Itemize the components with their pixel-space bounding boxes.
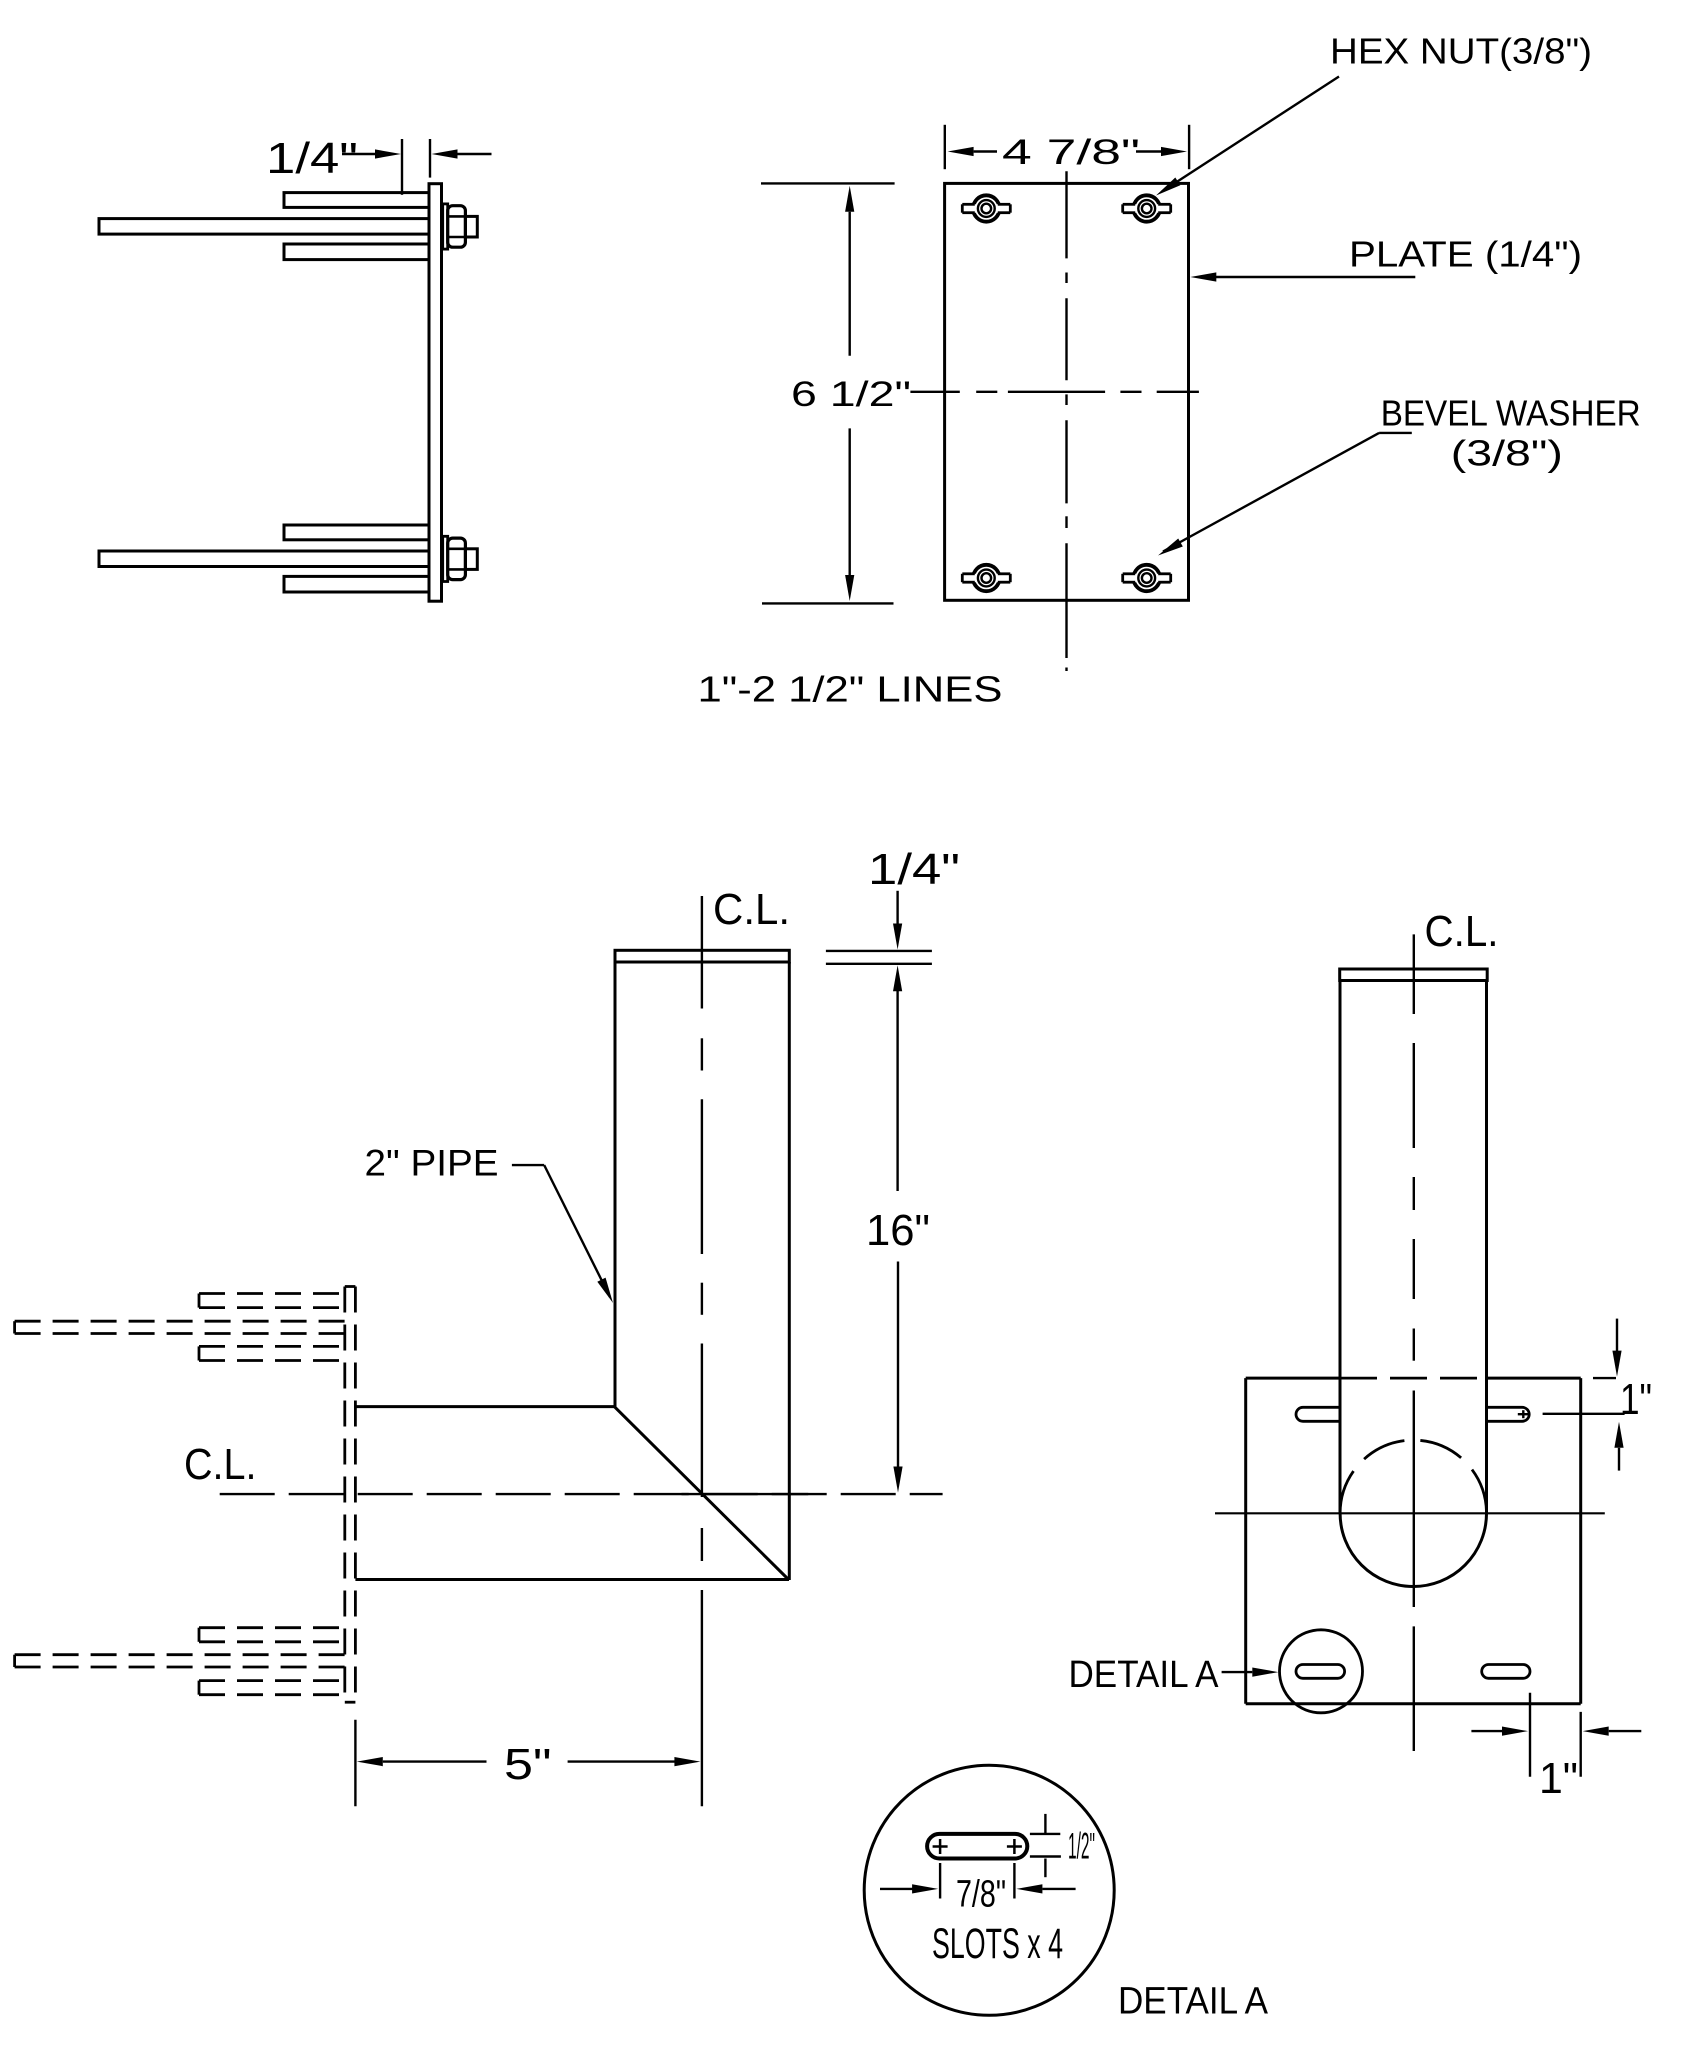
dim 1/4" arrow down [896, 891, 898, 925]
dim 1/4" extension line left [401, 139, 403, 195]
dim 1" upper: arrow down [1616, 1319, 1618, 1351]
hidden threaded rod bottom (dashed) [15, 1653, 345, 1656]
vertical center line [1065, 171, 1067, 671]
dim 6 1/2" arrows [845, 186, 854, 212]
dim 4 7/8" arrows [948, 147, 974, 156]
plate (1/4") side profile [429, 184, 442, 602]
view: plate front view (top-right) [698, 31, 1641, 710]
vertical pipe left edge [614, 962, 617, 1407]
dim 5" extension line [354, 1720, 356, 1807]
svg-text:HEX NUT(3/8"): HEX NUT(3/8") [1330, 31, 1592, 72]
dim 16" line + arrow down [897, 1262, 899, 1468]
svg-text:1": 1" [1539, 1754, 1578, 1803]
plate front face [945, 183, 1189, 600]
svg-text:1/4": 1/4" [266, 134, 358, 183]
horizontal center line [910, 391, 1199, 393]
plate outline [1244, 1378, 1247, 1704]
hex nut bottom-right (front) [1123, 565, 1171, 591]
dim 1" lower: arrow up [1614, 1422, 1623, 1448]
dim 6 1/2" extension lines [761, 182, 895, 184]
svg-text:1": 1" [1620, 1375, 1652, 1424]
horizontal center line (thin) [1215, 1512, 1605, 1514]
leader to plate edge [1216, 276, 1415, 278]
dim 1/4" arrow right [458, 153, 492, 155]
dim 1/4" arrow left [342, 153, 376, 155]
svg-text:1/4": 1/4" [868, 845, 960, 894]
pipe left edge [1339, 981, 1342, 1514]
hex nut top-right (front) [1123, 195, 1171, 221]
slot bottom-right [1482, 1665, 1530, 1679]
pipe top cap [615, 950, 789, 962]
pipe end hidden arc (dashed upper half) [1340, 1440, 1486, 1513]
svg-text:7/8": 7/8" [956, 1874, 1006, 1916]
bolt assembly bottom [99, 525, 477, 592]
leader to detail circle [1222, 1671, 1253, 1673]
svg-text:2" PIPE: 2" PIPE [365, 1143, 499, 1184]
svg-text:PLATE (1/4"): PLATE (1/4") [1349, 234, 1582, 275]
pipe vertical center line [701, 896, 703, 1806]
view: pipe front view (bottom-right) [1069, 907, 1653, 1803]
view: pipe elbow side view (bottom-left) [15, 845, 960, 1806]
horizontal pipe bottom edge [355, 1578, 789, 1581]
pipe end arc (solid lower half) [1340, 1513, 1486, 1586]
hex nut bottom-left (front) [962, 565, 1010, 591]
slot (enlarged) [927, 1834, 1027, 1859]
vertical center line [1413, 934, 1415, 1751]
miter joint diagonal [614, 1407, 789, 1580]
slot center mark + leader line [1518, 1413, 1529, 1415]
view: detail A (bottom middle) [864, 1765, 1268, 2022]
dim 5" arrows [357, 1757, 383, 1766]
hidden threaded rod top (dashed) [15, 1320, 345, 1323]
svg-text:4 7/8": 4 7/8" [1002, 133, 1140, 172]
dim 7/8" arrows [880, 1888, 914, 1890]
detail A circle mark [1280, 1630, 1363, 1713]
vertical pipe right edge [788, 962, 791, 1580]
hidden bolt bars top (dashed) [199, 1294, 345, 1361]
svg-text:C.L.: C.L. [184, 1440, 257, 1489]
dim 1" bottom extension lines [1529, 1693, 1531, 1777]
pipe right edge [1485, 981, 1488, 1514]
dim 1" bottom arrows [1471, 1730, 1504, 1732]
horizontal center line [220, 1493, 943, 1495]
svg-text:SLOTS x 4: SLOTS x 4 [932, 1920, 1063, 1968]
slot bottom-left [1296, 1665, 1345, 1679]
view: plate side view (top-left) [99, 134, 492, 601]
dim 1/2" ticks [1030, 1833, 1060, 1835]
slot center mark left [933, 1845, 948, 1848]
detail boundary circle [864, 1765, 1114, 2015]
svg-text:1"-2 1/2" LINES: 1"-2 1/2" LINES [698, 669, 1003, 710]
leader to bottom-right nut [1379, 432, 1412, 434]
horizontal pipe top edge [355, 1405, 614, 1408]
leader to top-right hex nut [1162, 77, 1339, 192]
svg-text:(3/8"): (3/8") [1451, 433, 1563, 474]
plate top edge extension dash [1593, 1377, 1616, 1379]
hex nut top-left (front) [962, 195, 1010, 221]
hidden plate edges (dashed) [343, 1287, 346, 1703]
svg-text:C.L.: C.L. [713, 885, 790, 934]
pipe top cap [1340, 969, 1488, 981]
dim 1/4" extension line right [429, 139, 431, 178]
leader to pipe wall [512, 1164, 544, 1166]
svg-text:6 1/2": 6 1/2" [791, 375, 911, 414]
svg-text:1/2": 1/2" [1068, 1826, 1095, 1867]
hidden bolt bars bottom (dashed) [199, 1628, 345, 1695]
svg-text:BEVEL WASHER: BEVEL WASHER [1381, 393, 1641, 434]
slot upper-right [1487, 1407, 1529, 1421]
plate top edge hidden behind pipe (dashed) [1340, 1377, 1487, 1380]
svg-text:5": 5" [504, 1740, 552, 1789]
svg-text:DETAIL A: DETAIL A [1069, 1654, 1220, 1696]
bolt assembly top (bars + threaded rod + washer + nut + tip) [99, 193, 477, 260]
dim 7/8" extension lines [939, 1863, 941, 1899]
slot upper-left [1296, 1407, 1340, 1421]
svg-text:16": 16" [866, 1206, 930, 1255]
dim 16" arrow up + line [893, 965, 902, 991]
cap extension lines [826, 950, 932, 952]
slot center mark right [1007, 1845, 1022, 1848]
svg-text:DETAIL A: DETAIL A [1118, 1981, 1269, 2023]
svg-text:C.L.: C.L. [1425, 907, 1499, 956]
dim 4 7/8" extension lines [944, 125, 946, 169]
